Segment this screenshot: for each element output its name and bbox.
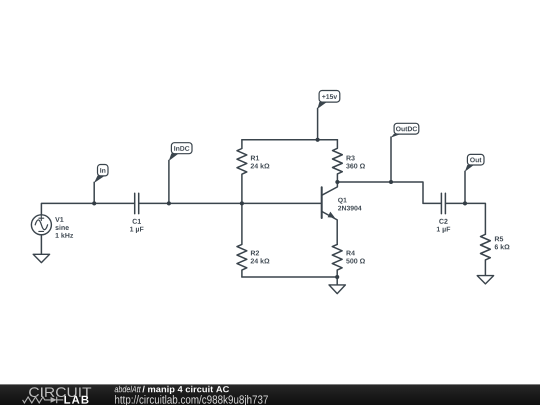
resistor R1	[237, 140, 247, 203]
label R2 24k	[251, 251, 270, 264]
logo diode	[51, 397, 64, 404]
logo CIRCUIT text	[29, 387, 91, 397]
wire Out flag riser	[464, 171, 466, 203]
resistor R5	[481, 234, 491, 276]
label C1 1uF	[130, 219, 143, 233]
node flag OutDC	[391, 123, 419, 137]
power flag +15v	[317, 91, 339, 109]
capacitor C1	[135, 193, 139, 213]
wire top supply rail	[242, 139, 338, 141]
wire In flag riser	[93, 182, 95, 203]
junction dot collector	[335, 180, 339, 184]
voltage source V1	[31, 215, 51, 235]
label R5 6k	[495, 237, 510, 250]
resistor R2	[237, 203, 247, 276]
capacitor C2	[441, 193, 445, 213]
label V1 sine 1 kHz	[55, 217, 73, 238]
junction dot R1 R2 base	[240, 201, 244, 205]
ground under V1	[33, 254, 49, 262]
resistor R3	[333, 140, 343, 182]
wire C2 to R5	[446, 203, 486, 234]
wire +15v flag riser	[317, 108, 319, 140]
footer bar	[0, 384, 540, 405]
junction dot InDC	[167, 201, 171, 205]
ground under R4	[329, 277, 345, 294]
node flag Out	[465, 154, 484, 171]
wire bottom emitter rail R2 to R4	[242, 276, 337, 278]
wire InDC flag riser	[168, 160, 170, 203]
junction dot R2 R4 ground	[335, 275, 339, 279]
junction dot +15v rail	[316, 138, 320, 142]
wire C1 to Q1 base	[139, 202, 322, 204]
wire V1 to ground	[40, 235, 42, 255]
wire collector to C2	[337, 182, 441, 203]
label R4 500	[346, 251, 365, 264]
label R3 360	[346, 156, 365, 169]
ground under R5	[477, 276, 493, 284]
logo LAB text	[64, 396, 88, 404]
node flag In	[94, 165, 108, 184]
junction dot OutDC	[389, 180, 393, 184]
label Q1 2N3904	[338, 198, 362, 211]
label C2 1uF	[437, 219, 450, 233]
logo waveform resistor	[23, 397, 51, 403]
label R1 24k	[251, 156, 270, 169]
footer url text	[115, 395, 268, 405]
footer title text	[115, 386, 229, 394]
resistor R4	[332, 244, 342, 276]
transistor Q1	[322, 182, 338, 244]
junction dot Out	[463, 201, 467, 205]
wire main signal V1 to C1	[41, 203, 134, 214]
wire OutDC flag riser	[390, 137, 392, 182]
junction dot In	[92, 201, 96, 205]
node flag InDC	[169, 143, 192, 161]
